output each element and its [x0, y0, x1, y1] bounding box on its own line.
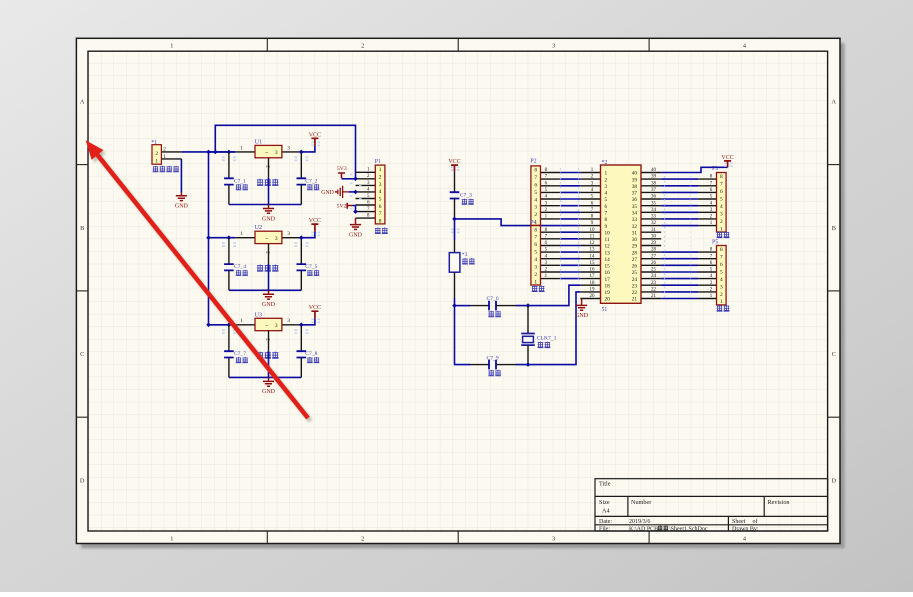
svg-text:21: 21 [632, 297, 638, 303]
svg-text:37: 37 [632, 191, 638, 197]
svg-text:11: 11 [590, 234, 595, 239]
connector P1 [356, 159, 385, 225]
svg-text:1: 1 [605, 171, 608, 177]
svg-text:1: 1 [720, 226, 723, 232]
svg-text:51: 51 [602, 307, 608, 313]
svg-text:14: 14 [605, 257, 611, 263]
svg-text:36: 36 [651, 195, 657, 200]
svg-text:7: 7 [605, 211, 608, 217]
svg-text:24: 24 [651, 274, 657, 279]
svg-text:22: 22 [632, 290, 638, 296]
svg-text:1: 1 [720, 299, 723, 305]
capacitor C7_6 [471, 301, 517, 311]
svg-text:File:: File: [599, 527, 610, 533]
IC pin names and numbers [590, 168, 657, 303]
svg-text:Drawn By:: Drawn By: [732, 527, 759, 533]
wire VCC to U3 output [301, 319, 315, 325]
ground under U3 [263, 377, 274, 386]
svg-text:18: 18 [590, 281, 596, 286]
svg-text:\Sheet1.SchDoc: \Sheet1.SchDoc [669, 527, 708, 533]
svg-text:3: 3 [275, 150, 278, 156]
wire U1 input [209, 151, 236, 153]
svg-text:6: 6 [379, 204, 382, 210]
svg-text:25: 25 [651, 268, 657, 273]
svg-text:GND: GND [575, 313, 589, 319]
label wenyaqi U3 [257, 352, 263, 359]
svg-text:Size: Size [599, 499, 610, 506]
svg-text:D: D [832, 477, 837, 484]
red arrow [86, 140, 308, 418]
svg-text:1: 1 [170, 42, 173, 49]
svg-text:27: 27 [651, 254, 657, 259]
wire 5V3 to pin2 [342, 178, 356, 180]
label wenyaqi U2 [257, 265, 263, 272]
wire main net U1 row [181, 151, 235, 153]
svg-text:1: 1 [170, 535, 173, 542]
svg-text:2: 2 [720, 292, 723, 298]
svg-text:12: 12 [605, 244, 611, 250]
junction cap left U2 [227, 235, 232, 240]
svg-text:38: 38 [632, 184, 638, 190]
sheet drop shadow [81, 43, 845, 548]
junction top bus drop [213, 150, 218, 155]
svg-text:8: 8 [720, 174, 723, 180]
wire P1 pin8 to ground [355, 218, 357, 222]
svg-text:Revision: Revision [768, 499, 790, 506]
svg-text:11: 11 [605, 237, 610, 243]
crystal CLK7_1 [521, 306, 535, 365]
wire *1 pin1 to GND [180, 159, 182, 193]
connector *1 [151, 140, 181, 164]
svg-text:15: 15 [605, 264, 611, 270]
svg-text:5: 5 [534, 250, 537, 256]
svg-text:C7_2: C7_2 [305, 178, 317, 184]
junction crystal top [526, 303, 531, 308]
wire bottom rail U1 [229, 204, 301, 206]
border zone ticks [76, 38, 840, 543]
wire bottom rail U2 [229, 289, 301, 291]
wire left VCC rail [208, 152, 210, 325]
svg-text:21: 21 [651, 294, 657, 299]
svg-text:2: 2 [720, 219, 723, 225]
junction cap left U1 [227, 150, 232, 155]
svg-text:2: 2 [534, 272, 537, 278]
svg-text:23: 23 [651, 281, 657, 286]
svg-text:40: 40 [651, 168, 657, 173]
svg-text:17: 17 [605, 277, 611, 283]
junction rail U2 [206, 235, 211, 240]
wire C7_6 left [455, 305, 471, 307]
svg-text:4: 4 [720, 204, 723, 210]
svg-text:39: 39 [651, 175, 657, 180]
ground under U2 [263, 290, 274, 299]
svg-text:C7_5: C7_5 [305, 264, 317, 270]
svg-text:P3: P3 [712, 166, 718, 172]
svg-text:7: 7 [720, 182, 723, 188]
wire C7_9 to IC pin19 [516, 292, 580, 365]
svg-text:4: 4 [534, 197, 537, 203]
svg-text:P1: P1 [375, 159, 381, 165]
svg-text:15: 15 [590, 261, 596, 266]
svg-text:1: 1 [534, 279, 537, 285]
svg-text:27: 27 [632, 257, 638, 263]
label wenyaqi U1 [257, 179, 263, 186]
svg-text:24: 24 [632, 277, 638, 283]
connector P5 [698, 240, 726, 306]
svg-text:Sheet: Sheet [732, 519, 746, 525]
svg-text:13: 13 [605, 250, 611, 256]
svg-text:22: 22 [651, 288, 657, 293]
svg-text:6: 6 [605, 204, 608, 210]
svg-text:7: 7 [379, 211, 382, 217]
svg-text:U2: U2 [255, 224, 263, 231]
svg-text:40: 40 [632, 171, 638, 177]
label dianyuan duanzi [153, 166, 159, 172]
svg-text:3: 3 [720, 284, 723, 290]
svg-text:VCC: VCC [309, 305, 321, 311]
voltage regulator U2 [235, 224, 302, 263]
svg-text:5V2: 5V2 [337, 204, 347, 210]
wire pin2 to rail [268, 178, 270, 205]
ground under *1 [176, 193, 187, 201]
junction cap left U3 [227, 323, 232, 328]
svg-text:32: 32 [632, 224, 638, 230]
svg-text:3: 3 [287, 145, 290, 151]
junction P1 pin2 [353, 177, 358, 182]
ground under U1 [263, 205, 274, 214]
svg-text:5V3: 5V3 [337, 166, 347, 172]
svg-text:~: ~ [265, 323, 268, 329]
wire R3 to cap row [454, 298, 456, 306]
svg-text:1: 1 [240, 145, 243, 151]
svg-text:4: 4 [605, 191, 608, 197]
svg-text:19: 19 [590, 288, 596, 293]
svg-text:34: 34 [632, 211, 638, 217]
svg-text:GND: GND [321, 190, 334, 196]
svg-text:8: 8 [720, 247, 723, 253]
svg-text:5: 5 [720, 197, 723, 203]
svg-text:7: 7 [534, 175, 537, 181]
svg-text:C: C [832, 351, 836, 358]
svg-text:29: 29 [651, 241, 657, 246]
resistor R3 [449, 240, 460, 298]
svg-text:C: C [80, 351, 84, 358]
svg-text:K:\AD PCB: K:\AD PCB [629, 527, 658, 533]
wires P4 to IC [560, 232, 580, 278]
svg-text:B: B [832, 225, 836, 232]
wire to IC pin9 [455, 219, 581, 226]
capacitor right of U3 [297, 325, 307, 378]
svg-text:C7_8: C7_8 [305, 351, 317, 357]
svg-text:3: 3 [534, 264, 537, 270]
svg-text:35: 35 [632, 204, 638, 210]
svg-text:C7_1: C7_1 [234, 178, 246, 184]
svg-text:8: 8 [534, 168, 537, 174]
wire gnd-bar to pin4 [349, 191, 356, 193]
svg-text:3: 3 [287, 231, 290, 237]
svg-text:13: 13 [590, 248, 596, 253]
svg-text:GND: GND [175, 204, 189, 210]
svg-text:26: 26 [632, 264, 638, 270]
svg-text:35: 35 [651, 201, 657, 206]
hotspot artifacts [561, 168, 691, 297]
svg-text:1: 1 [240, 231, 243, 237]
svg-text:5: 5 [534, 190, 537, 196]
svg-text:30: 30 [632, 237, 638, 243]
svg-text:6: 6 [720, 189, 723, 195]
connector P2 [530, 159, 560, 226]
svg-text:10: 10 [605, 230, 611, 236]
wire pin2 to rail [268, 351, 270, 378]
svg-text:28: 28 [651, 248, 657, 253]
ground under P1 [350, 222, 361, 230]
label chapai P4 [532, 285, 538, 291]
svg-text:~: ~ [265, 236, 268, 242]
svg-text:2: 2 [163, 146, 166, 152]
wire VCC to IC pin40 [661, 167, 727, 172]
label chapai P3 [717, 232, 723, 238]
wire rail down to C7_9 row [455, 306, 471, 365]
label chapai P5 [717, 305, 723, 311]
svg-text:28: 28 [632, 250, 638, 256]
svg-text:3: 3 [605, 184, 608, 190]
svg-text:2: 2 [379, 174, 382, 180]
junction cap right U1 [299, 150, 304, 155]
svg-text:7: 7 [534, 235, 537, 241]
svg-text:38: 38 [651, 181, 657, 186]
svg-text:9: 9 [605, 224, 608, 230]
svg-text:CLK7_1: CLK7_1 [537, 335, 557, 341]
svg-text:A: A [832, 99, 837, 106]
wire bottom rail U3 [229, 376, 301, 378]
voltage regulator U1 [235, 138, 302, 177]
svg-text:A4: A4 [602, 507, 610, 514]
svg-text:31: 31 [651, 228, 657, 233]
wire U2 input [209, 237, 236, 239]
svg-text:VCC: VCC [721, 155, 733, 161]
wires IC to P3 [661, 179, 698, 226]
svg-text:VCC: VCC [309, 218, 321, 224]
svg-text:20: 20 [590, 294, 596, 299]
hotspot artifacts left [222, 142, 733, 335]
svg-text:VCC: VCC [309, 132, 321, 138]
svg-text:37: 37 [651, 188, 657, 193]
svg-text:8: 8 [534, 227, 537, 233]
svg-text:*3: *3 [462, 252, 468, 258]
svg-text:29: 29 [632, 244, 638, 250]
capacitor left of U2 [224, 238, 234, 291]
svg-text:31: 31 [632, 230, 638, 236]
svg-text:17: 17 [590, 274, 596, 279]
svg-text:C7_9: C7_9 [487, 356, 499, 362]
capacitor C7_9 [471, 360, 517, 370]
svg-text:5: 5 [605, 197, 608, 203]
svg-text:2: 2 [534, 212, 537, 218]
wires P2 to IC [560, 173, 580, 219]
capacitor left of U3 [224, 325, 234, 378]
capacitor C7_3 [450, 171, 460, 219]
junction cap right U2 [299, 235, 304, 240]
junction cap right U3 [299, 323, 304, 328]
svg-text:2: 2 [361, 535, 364, 542]
svg-text:33: 33 [632, 217, 638, 223]
svg-text:36: 36 [632, 197, 638, 203]
svg-text:6: 6 [534, 183, 537, 189]
svg-text:20: 20 [605, 297, 611, 303]
svg-text:Number: Number [631, 499, 651, 506]
svg-text:6: 6 [534, 242, 537, 248]
svg-text:GND: GND [349, 232, 363, 238]
wire C7_6 to IC pin18 [516, 285, 580, 305]
svg-text:2: 2 [605, 177, 608, 183]
capacitor right of U1 [297, 152, 307, 205]
svg-text:Title: Title [599, 481, 611, 488]
svg-text:of: of [753, 518, 758, 525]
svg-text:D: D [80, 477, 85, 484]
wire VCC to U2 output [301, 232, 315, 238]
svg-text:34: 34 [651, 208, 657, 213]
svg-text:7: 7 [720, 255, 723, 261]
junction P1 pin7 [353, 209, 358, 214]
connector P4 [530, 220, 560, 285]
svg-text:1: 1 [163, 154, 166, 160]
svg-text:C7_6: C7_6 [487, 296, 499, 302]
svg-text:C7_7: C7_7 [234, 351, 246, 357]
svg-text:1: 1 [379, 167, 382, 173]
svg-text:1: 1 [155, 158, 158, 164]
wire rail to R3 [454, 219, 456, 240]
svg-text:25: 25 [632, 270, 638, 276]
schematic sheet paper [76, 38, 840, 543]
svg-text:8: 8 [605, 217, 608, 223]
svg-text:16: 16 [590, 268, 596, 273]
wire 5V2 to pin7 [353, 206, 356, 212]
svg-text:18: 18 [605, 283, 611, 289]
svg-text:2: 2 [361, 42, 364, 49]
sheet grid [88, 51, 828, 531]
svg-text:3: 3 [720, 211, 723, 217]
capacitor left of U1 [224, 152, 234, 205]
svg-text:2: 2 [155, 151, 158, 157]
svg-text:A: A [80, 99, 85, 106]
ground under IC pin20 [581, 299, 583, 303]
svg-text:3: 3 [534, 205, 537, 211]
junction crystal bottom [526, 362, 531, 367]
svg-text:12: 12 [590, 241, 596, 246]
red arrow shadow [88, 143, 310, 421]
svg-text:32: 32 [651, 221, 657, 226]
svg-text:VCC: VCC [448, 159, 460, 165]
svg-text:Date:: Date: [599, 519, 612, 525]
IC *2 body [601, 160, 642, 303]
svg-text:5: 5 [379, 197, 382, 203]
svg-text:4: 4 [720, 277, 723, 283]
svg-text:B: B [80, 225, 84, 232]
svg-text:U1: U1 [255, 138, 263, 145]
svg-text:6: 6 [720, 262, 723, 268]
svg-text:3: 3 [379, 182, 382, 188]
junction rail U1 [206, 150, 211, 155]
wire VCC top bus [215, 125, 355, 179]
svg-text:2019/3/6: 2019/3/6 [629, 519, 650, 525]
svg-text:GND: GND [262, 216, 276, 222]
svg-text:3: 3 [275, 323, 278, 329]
svg-text:GND: GND [262, 302, 276, 308]
svg-text:GND: GND [262, 389, 276, 395]
svg-text:33: 33 [651, 215, 657, 220]
svg-text:U3: U3 [255, 311, 263, 318]
svg-text:3: 3 [275, 236, 278, 242]
svg-text:1: 1 [240, 318, 243, 324]
svg-text:P5: P5 [712, 240, 718, 246]
svg-text:3: 3 [552, 535, 555, 542]
svg-text:30: 30 [651, 234, 657, 239]
svg-text:C7_3: C7_3 [460, 193, 472, 199]
svg-text:4: 4 [534, 257, 537, 263]
junction rail U3 [206, 323, 211, 328]
svg-text:14: 14 [590, 254, 596, 259]
junction P1 pin4 [353, 190, 358, 195]
capacitor right of U2 [297, 238, 307, 291]
title block [595, 479, 828, 531]
wire VCC to U1 output [301, 146, 315, 152]
svg-text:23: 23 [632, 283, 638, 289]
junction crystal top rail [452, 303, 457, 308]
svg-text:4: 4 [379, 189, 382, 195]
wires IC to P5 [661, 252, 698, 298]
wire pin2 to rail [268, 264, 270, 291]
IC *2 pin stubs right [641, 173, 661, 299]
label chapai P1 [375, 227, 381, 233]
svg-text:16: 16 [605, 270, 611, 276]
svg-text:3: 3 [552, 42, 555, 49]
wire U3 input [209, 324, 236, 326]
svg-text:C7_4: C7_4 [234, 264, 246, 270]
connector P3 [698, 166, 726, 232]
svg-text:26: 26 [651, 261, 657, 266]
IC *2 pin stubs left [580, 173, 600, 299]
svg-text:39: 39 [632, 177, 638, 183]
inner border frame [88, 51, 828, 531]
junction C7_3 bottom [452, 217, 457, 222]
svg-text:5: 5 [720, 270, 723, 276]
svg-text:~: ~ [265, 150, 268, 156]
svg-text:10: 10 [590, 228, 596, 233]
svg-text:3: 3 [287, 318, 290, 324]
svg-text:P2: P2 [530, 159, 536, 165]
voltage regulator U3 [235, 311, 302, 350]
svg-text:19: 19 [605, 290, 611, 296]
svg-text:8: 8 [379, 219, 382, 225]
